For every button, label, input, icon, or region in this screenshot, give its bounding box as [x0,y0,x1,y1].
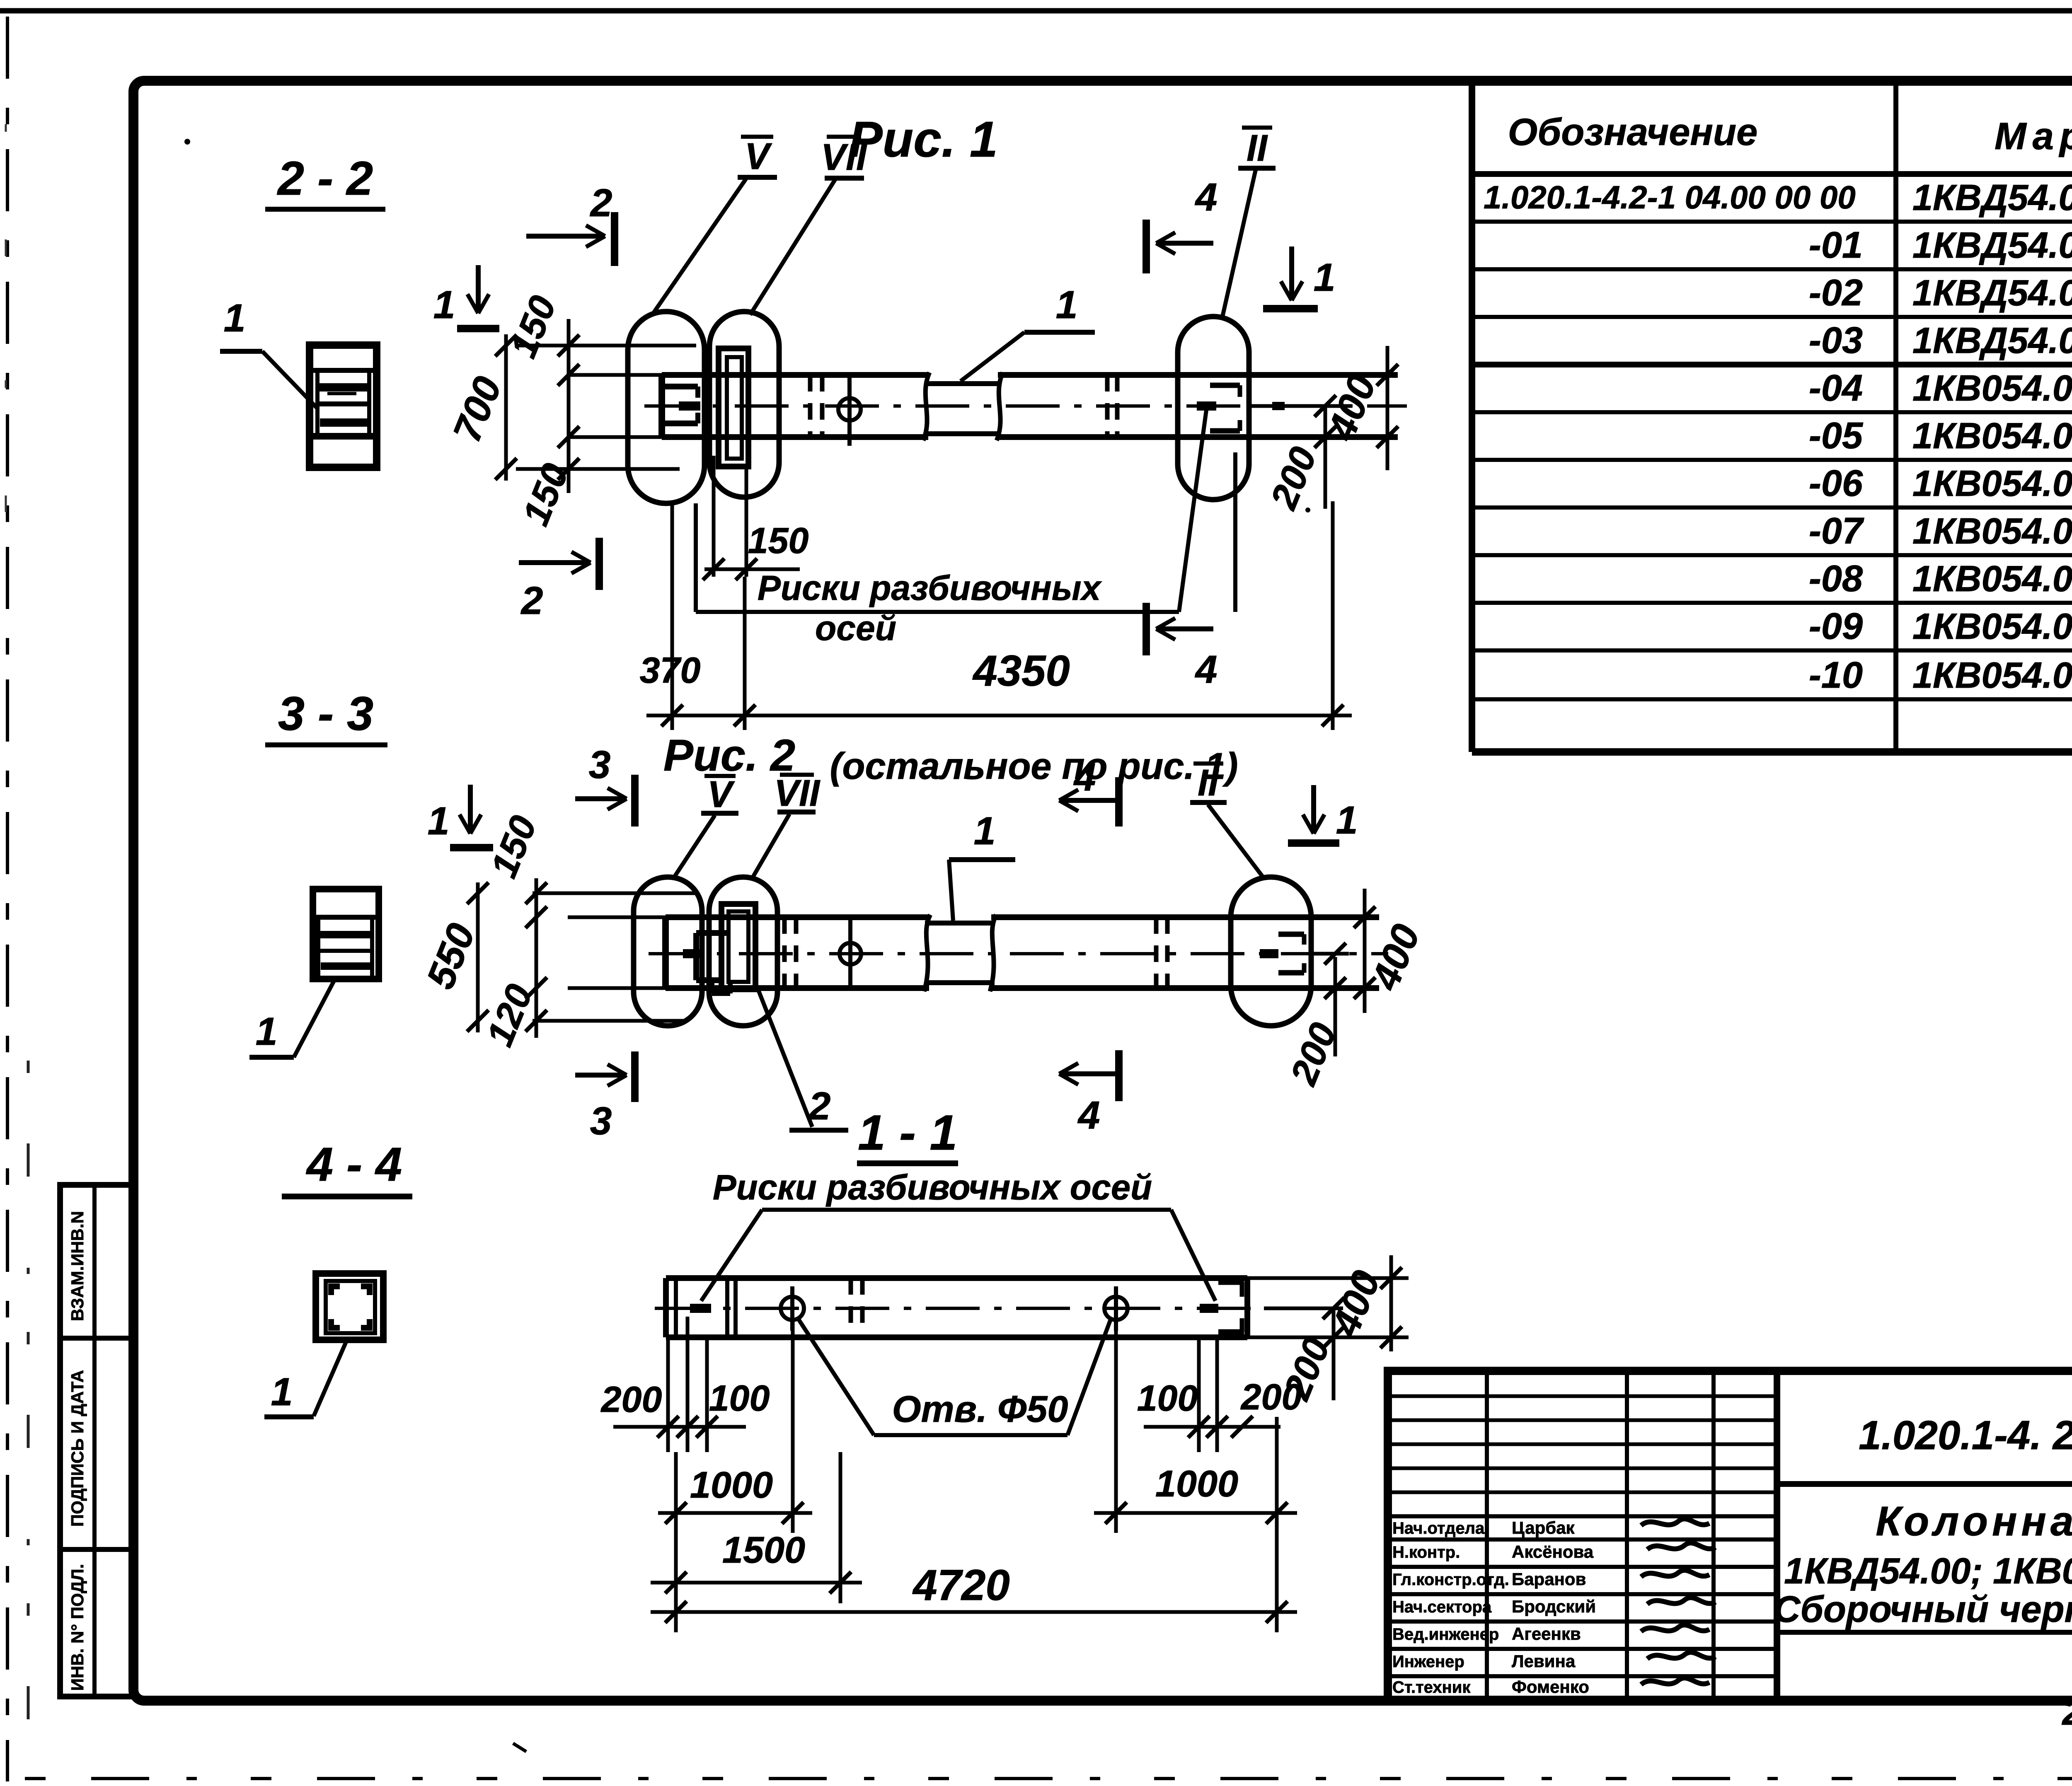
dimension 4720 (1-1) [674,1533,678,1632]
dimension 400 (1-1) [1389,1255,1393,1351]
dimension 550 (Рис.2) [476,882,480,1032]
svg-text:-08: -08 [1809,558,1863,599]
svg-text:1: 1 [1314,256,1336,300]
svg-text:-09: -09 [1809,606,1863,647]
svg-text:1КВ054.00 -3.25.00: 1КВ054.00 -3.25.00 [1912,463,2072,504]
svg-text:1КВД54.00-3.25 00: 1КВД54.00-3.25 00 [1912,272,2072,313]
extension lines right (Рис.1) [1249,404,1352,408]
dim chain right 100/200 (1-1) [1144,1337,1280,1452]
svg-text:1КВ054.00 -3.36.00: 1КВ054.00 -3.36.00 [1912,606,2072,647]
svg-text:Агеенкв: Агеенкв [1512,1624,1581,1643]
svg-text:100: 100 [709,1378,770,1419]
svg-text:4 - 4: 4 - 4 [306,1138,402,1191]
stray dot top left [184,139,190,145]
svg-text:4: 4 [1077,1093,1100,1137]
svg-text:1КВ054.00-3.20.00: 1КВ054.00-3.20.00 [1912,367,2072,408]
svg-text:1: 1 [428,799,450,843]
dimension 1000 left (1-1) [674,1452,678,1533]
bar centerline (Рис.1) [644,404,1407,408]
dashed joint pair right (Рис.2) [1154,917,1159,988]
svg-text:VII: VII [821,137,867,178]
dimension 370/4350 (Рис.1) [646,501,1352,730]
svg-text:Отв. Ф50: Отв. Ф50 [892,1389,1068,1430]
svg-text:Аксёнова: Аксёнова [1512,1542,1594,1561]
svg-text:4: 4 [1195,648,1218,691]
svg-text:1КВ054.00-3.28.00: 1КВ054.00-3.28.00 [1912,510,2072,551]
svg-text:22226 24: 22226 24 [2061,1692,2072,1733]
capsule II (Рис.2) [1231,877,1311,1026]
svg-text:1КВД54.00-3.22.00: 1КВД54.00-3.22.00 [1912,225,2072,266]
svg-text:Колонна: Колонна [1876,1498,2072,1544]
dimension 150/400/150 line (Рис.1) [567,319,571,493]
dashed joint pair right (Рис.1) [1105,375,1110,437]
capsule VII (Рис.1) [709,312,779,497]
риска marks (1-1) [690,1304,711,1313]
axis circle (Рис.2) [840,943,861,964]
left stamp box [60,1185,133,1697]
svg-text:V: V [745,136,772,177]
axis circle (Рис.1) [838,398,861,421]
svg-text:200: 200 [600,1379,662,1420]
svg-text:4350: 4350 [972,647,1070,695]
break lines (Рис.1) [923,372,929,440]
svg-text:120: 120 [479,979,541,1052]
column bar (Рис.2) [666,917,1379,988]
channel bracket left (Рис.2) [696,933,730,993]
parts table grid [1472,81,2072,752]
svg-text:Н.контр.: Н.контр. [1392,1543,1460,1561]
svg-text:1КВ054.00-3.22.00: 1КВ054.00-3.22.00 [1912,415,2072,456]
svg-text:4: 4 [1195,175,1218,219]
scan smudge left margin [27,1061,30,1784]
dim chain left 200/100 (1-1) [613,1317,746,1452]
svg-text:-07: -07 [1809,510,1864,552]
svg-text:осей: осей [815,609,896,648]
svg-text:Нач.сектора: Нач.сектора [1392,1598,1492,1616]
extension lines left (Рис.1) [516,346,696,469]
svg-text:700: 700 [445,371,510,448]
svg-text:Фоменко: Фоменко [1512,1677,1589,1697]
svg-text:Марка: Марка [1995,115,2072,157]
svg-text:Баранов: Баранов [1512,1569,1586,1589]
svg-text:2: 2 [520,579,543,623]
svg-text:V: V [707,774,735,815]
dimension 1500 (1-1) [839,1452,842,1603]
svg-text:4720: 4720 [912,1561,1010,1610]
dimension 400 (Рис.1) [1386,346,1389,470]
title block outline [1388,1371,2072,1701]
svg-text:(остальное по рис. 1): (остальное по рис. 1) [830,746,1238,787]
sheet left edge [6,17,9,1781]
title block grid [1388,1371,2072,1701]
svg-text:Обозначение: Обозначение [1508,111,1758,153]
dashed joint pair left (Рис.1) [808,375,813,437]
svg-text:Ст.техник: Ст.техник [1392,1678,1471,1697]
svg-text:1КВ054.00 -3.40.00: 1КВ054.00 -3.40.00 [1912,655,2072,696]
риски leader (Рис.1) [694,503,698,612]
svg-text:1.020.1-4. 2-1 04. 00 00 00: 1.020.1-4. 2-1 04. 00 00 00 СБ [1859,1412,2072,1458]
capsule VII (Рис.2) [709,877,777,1026]
sheet top edge [0,8,2072,14]
dimension 200 vertical (1-1) [1332,1308,1336,1400]
svg-text:-04: -04 [1809,367,1863,409]
stray dot center [1305,508,1310,512]
риска mark left (Рис.1) [679,401,700,411]
svg-text:200: 200 [1240,1376,1302,1417]
capsule V (Рис.1) [628,312,704,503]
svg-text:2: 2 [590,181,612,225]
svg-text:Сборочный чертеж.: Сборочный чертеж. [1773,1589,2072,1630]
svg-text:1КВ054.00-3.32.00: 1КВ054.00-3.32.00 [1912,558,2072,599]
svg-text:1: 1 [433,283,455,327]
svg-text:1: 1 [1336,798,1358,842]
svg-text:ИНВ. N° ПОДЛ.: ИНВ. N° ПОДЛ. [68,1564,87,1691]
capsule II (Рис.1) [1178,317,1249,500]
hole left (1-1) [781,1297,804,1320]
scan smudge left margin upper [5,124,7,580]
svg-text:150: 150 [748,520,809,561]
svg-text:1: 1 [271,1370,293,1414]
svg-text:Вед.инженер: Вед.инженер [1392,1625,1499,1643]
svg-text:-01: -01 [1809,225,1863,266]
svg-text:1.020.1-4.2-1 04.00 00 00: 1.020.1-4.2-1 04.00 00 00 [1484,179,1856,215]
svg-text:Левина: Левина [1512,1651,1576,1671]
svg-text:1КВД54.00-3.28 00: 1КВД54.00-3.28 00 [1912,320,2072,361]
dimension 700 (Рис.1) [504,334,508,481]
Отв Ф50 bracket [874,1433,1067,1437]
plate VII (Рис.2) [721,904,755,989]
svg-text:1000: 1000 [1155,1463,1238,1505]
plate VII (Рис.1) [719,348,748,466]
dimension 150 under plate (Рис.1) [703,456,800,580]
end bracket (Рис.2 right) [1260,934,1304,973]
svg-text:Риски разбивочных: Риски разбивочных [758,568,1102,607]
риска mark left (Рис.2) [683,949,704,958]
svg-text:Царбак: Царбак [1512,1518,1575,1537]
svg-text:Гл.констр.отд.: Гл.констр.отд. [1392,1571,1509,1589]
svg-text:-05: -05 [1809,415,1864,457]
extension lines right (1-1) [1247,1276,1409,1280]
svg-text:-02: -02 [1809,272,1863,314]
bar (1-1) [666,1278,1247,1337]
section 3-3 figure [313,889,379,979]
svg-text:1: 1 [224,296,246,340]
hole right (1-1) [1104,1297,1128,1320]
svg-text:Инженер: Инженер [1392,1653,1464,1671]
svg-text:1: 1 [1056,283,1078,327]
svg-text:3: 3 [589,743,611,787]
svg-text:150: 150 [503,290,564,363]
svg-text:3 - 3: 3 - 3 [278,687,373,740]
dashed joint pair left (Рис.2) [782,917,787,988]
svg-text:1КВД54.00; 1КВ054.00: 1КВД54.00; 1КВ054.00 [1784,1550,2072,1591]
svg-text:Рис. 1: Рис. 1 [849,111,997,167]
svg-text:370: 370 [640,650,701,691]
svg-text:-03: -03 [1809,320,1863,361]
dimension 150/120 line (Рис.2) [535,878,538,1038]
svg-text:II: II [1247,128,1268,169]
dimension 400 (Рис.2) [1311,952,1349,956]
centerline (1-1) [655,1307,1272,1310]
svg-text:Бродский: Бродский [1512,1597,1596,1616]
section 2-2 figure [310,345,377,467]
bar centerline (Рис.2) [649,952,1388,955]
svg-text:Нач.отдела: Нач.отдела [1392,1519,1485,1537]
svg-text:ПОДПИСЬ И ДАТА: ПОДПИСЬ И ДАТА [68,1370,87,1527]
svg-text:ВЗАМ.ИНВ.N: ВЗАМ.ИНВ.N [68,1211,87,1321]
dimension 200 (Рис.2) [1334,957,1337,1056]
extension lines left (Рис.2) [533,893,696,1021]
svg-text:1500: 1500 [722,1530,805,1571]
dashed joint pair (1-1) [849,1278,853,1337]
svg-text:2 - 2: 2 - 2 [277,152,373,205]
svg-text:550: 550 [418,918,484,995]
svg-text:Риски разбивочных осей: Риски разбивочных осей [713,1168,1152,1207]
section 4-4 figure [316,1274,383,1340]
svg-text:-10: -10 [1809,655,1863,696]
break lines (Рис.2) [924,915,930,991]
svg-text:100: 100 [1137,1378,1198,1419]
channel bracket at left end (Рис.1) [663,387,698,423]
svg-text:-06: -06 [1809,463,1863,504]
column bar (Рис.1) [662,375,1398,437]
svg-text:1: 1 [256,1010,278,1054]
dimension 200 (Рис.1) [1324,408,1327,509]
svg-text:3: 3 [590,1099,612,1143]
end bracket (Рис.1 right) [1197,385,1240,431]
signatures [1641,1519,1716,1684]
stray mark bottom [513,1743,526,1752]
svg-text:VII: VII [774,773,821,814]
capsule V (Рис.2) [634,877,702,1026]
svg-text:200: 200 [1263,441,1325,515]
svg-text:1000: 1000 [690,1465,773,1506]
svg-text:II: II [1198,762,1219,804]
dimension 1000 right (1-1) [1114,1320,1118,1533]
svg-text:1: 1 [974,809,996,853]
end bracket right (1-1) [1218,1282,1244,1332]
svg-text:400: 400 [1363,918,1428,997]
svg-text:1КВД54.00-3.20.00: 1КВД54.00-3.20.00 [1912,177,2072,218]
svg-text:1 - 1: 1 - 1 [858,1105,957,1160]
sheet bottom edge noise [25,1777,2072,1780]
риски bracket (1-1) [762,1208,1171,1212]
риска blob right outside (Рис.1) [1272,402,1285,410]
